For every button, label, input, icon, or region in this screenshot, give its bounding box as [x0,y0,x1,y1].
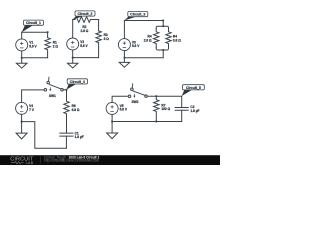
footer divider [39,156,41,163]
svg-text:2.8 Ω: 2.8 Ω [144,38,152,42]
svg-text:http://circuitlab.com/c2v3bfeb: http://circuitlab.com/c2v3bfebb6rc2b8 [44,159,99,163]
voltage source V4 [16,102,28,114]
svg-text:5.6 V: 5.6 V [80,44,88,48]
node circuit3 top corner [162,20,164,22]
svg-text:Circuit_3: Circuit_3 [130,13,145,17]
wire SW1 to node [63,89,66,91]
wire SW2 to R7/C2 [147,95,182,97]
node circuit5 bottom-left [111,121,113,123]
resistor R3 [96,31,101,58]
footer bar [0,155,220,165]
resistor R4 [154,29,159,47]
label Circuit_3 [124,12,147,21]
wire circuit4 bottom [22,122,67,149]
node circuit3 bar bottom [162,49,164,51]
ground circuit2 [68,58,78,68]
capacitor C1 [60,133,73,148]
wire circuit2 top-left [73,19,75,21]
svg-text:5.6 V: 5.6 V [29,44,37,48]
wire V1 top [21,32,23,39]
wire circuit2 right vertical [98,20,100,31]
svg-text:6.8 Ω: 6.8 Ω [72,108,80,112]
wire V2 bottom [72,50,74,58]
resistor R5 [166,29,171,47]
node circuit2 bottom [72,57,74,59]
ground circuit3 [119,58,129,67]
svg-text:Circuit_1: Circuit_1 [26,21,41,25]
svg-text:2 Ω: 2 Ω [53,45,59,49]
svg-text:5.6 V: 5.6 V [132,44,140,48]
wire parallel bottom bar [156,47,168,50]
voltage source V1 [16,39,28,51]
svg-text:2.8 Ω: 2.8 Ω [80,29,88,33]
wire circuit3 top [124,20,163,22]
voltage source V3 [118,39,130,51]
svg-text:3 Ω: 3 Ω [104,37,110,41]
wire circuit5 bottom [112,121,182,123]
label Circuit_1 [22,20,44,32]
svg-text:Circuit_2: Circuit_2 [78,12,93,16]
wire V5 top [112,96,128,102]
node circuit1 top-right [47,31,49,33]
svg-text:100 Ω: 100 Ω [161,107,170,111]
node circuit5 top R7 [155,95,157,97]
wire V2 top [72,20,74,39]
svg-text:1.8 µF: 1.8 µF [190,109,199,113]
switch SW1 [44,77,63,91]
wire V3 top [123,21,125,39]
svg-text:LAB: LAB [26,161,34,165]
node circuit5 bottom R7 [155,121,157,123]
label Circuit_2 [73,11,95,20]
resistor R6 [64,90,69,133]
ground circuit1 [16,58,27,68]
node circuit4 top [66,89,68,91]
node circuit3 bar top [162,25,164,27]
ground circuit4 [16,133,27,139]
wire V5 bottom [111,114,113,133]
wire circuit1 top [22,31,48,33]
resistor R1 [45,32,50,58]
wire parallel top bar [156,26,168,29]
wire circuit3 stem bottom [162,50,164,58]
svg-text:1.8 µF: 1.8 µF [75,135,84,139]
wire circuit3 stem top [162,21,164,27]
voltage source V2 [67,38,79,50]
node circuit1 bottom-left [21,57,23,59]
node circuit4 bottom-left [21,121,23,123]
capacitor C2 [175,96,188,121]
wire V4 top [22,90,45,102]
switch SW2 [128,84,147,98]
wire V3 bottom [123,51,125,58]
svg-text:Circuit_5: Circuit_5 [186,86,201,90]
wire V1 bottom [21,51,23,58]
svg-text:Circuit_4: Circuit_4 [70,80,85,84]
resistor R7 [154,96,159,121]
svg-text:3.8 Ω: 3.8 Ω [173,38,181,42]
voltage source V5 [106,102,118,114]
wire circuit1 bottom [22,57,48,59]
resistor R2 [75,17,99,23]
label Circuit_4 [66,79,87,90]
wire V4 bottom [21,114,23,133]
svg-text:5.6 V: 5.6 V [120,108,128,112]
svg-text:SW1: SW1 [49,94,56,98]
label Circuit_5 [182,85,205,96]
svg-text:SW2: SW2 [132,100,139,104]
node circuit3 bottom-left [124,57,126,59]
wire circuit2 bottom [73,57,99,59]
wire circuit3 bottom [124,57,163,59]
ground circuit5 [107,133,118,139]
